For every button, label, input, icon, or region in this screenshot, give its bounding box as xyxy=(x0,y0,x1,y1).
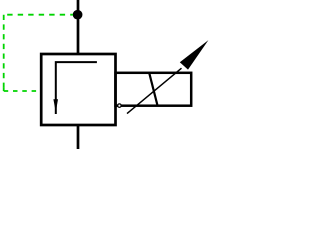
solenoid armature line xyxy=(149,73,157,106)
valve body: square envelope xyxy=(41,54,115,125)
proportional arrow: shaft xyxy=(127,68,182,113)
valve flow path: internal polyline xyxy=(56,62,97,114)
node: small connection circle on solenoid bottom edge xyxy=(118,104,122,108)
wire: green dashed pilot line, bottom horizontal segment xyxy=(4,88,41,91)
wire: green dashed pilot line, left vertical segment xyxy=(3,15,5,89)
wire: top port line xyxy=(77,0,80,54)
wire: bottom port line xyxy=(77,125,80,149)
solenoid coil: rectangle xyxy=(116,73,192,106)
wire: green dashed pilot line, top horizontal segment xyxy=(7,14,73,16)
node: junction dot xyxy=(73,10,83,20)
valve flow path arrowhead (points down) xyxy=(53,99,58,108)
proportional arrow: head xyxy=(180,40,209,70)
